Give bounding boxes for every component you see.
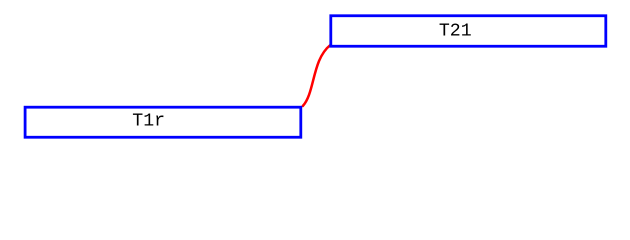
svg-text:T21: T21 [439, 21, 472, 41]
node T21: task box [331, 16, 606, 47]
svg-text:T1r: T1r [132, 111, 165, 131]
wire: red dependency curve from T1r to T21 [303, 45, 330, 106]
node T1r: task box [25, 107, 301, 137]
